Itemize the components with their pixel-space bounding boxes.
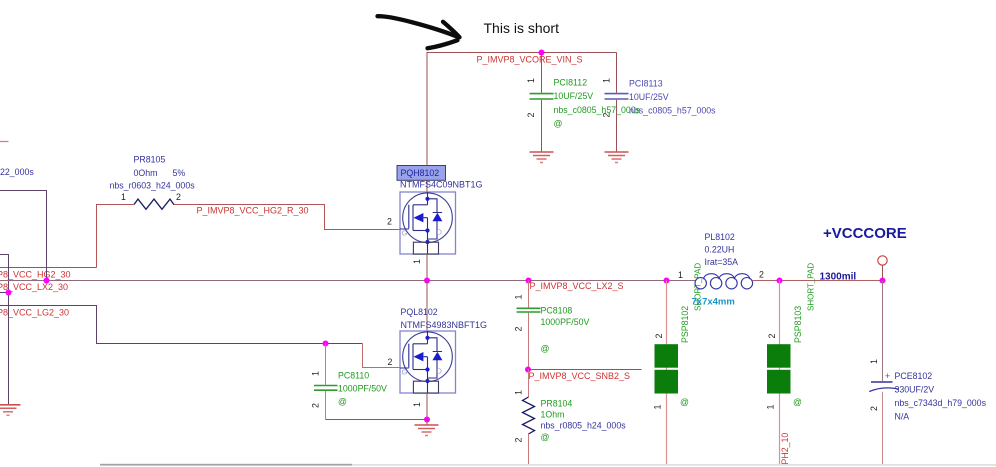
svg-text:1: 1 bbox=[869, 359, 879, 364]
wire LG2 to PQL gate bbox=[0, 306, 363, 344]
node junction stub bbox=[6, 290, 12, 296]
capacitor PC8108 bbox=[514, 281, 590, 370]
svg-text:10UF/25V: 10UF/25V bbox=[554, 91, 594, 101]
svg-text:2: 2 bbox=[311, 403, 321, 408]
terminal circle bbox=[878, 256, 887, 265]
inductor PL8102 bbox=[678, 232, 764, 308]
svg-text:2: 2 bbox=[602, 113, 612, 118]
svg-text:1: 1 bbox=[653, 405, 663, 410]
svg-text:1: 1 bbox=[514, 390, 524, 395]
svg-text:NTMFS4983NBFT1G: NTMFS4983NBFT1G bbox=[401, 320, 488, 330]
svg-text:G: G bbox=[402, 229, 408, 238]
svg-text:7x7x4mm: 7x7x4mm bbox=[692, 297, 735, 308]
svg-text:1: 1 bbox=[121, 192, 126, 202]
svg-text:D: D bbox=[437, 228, 443, 237]
ground (PCI8113) bbox=[605, 152, 629, 163]
svg-text:D: D bbox=[437, 367, 443, 376]
svg-text:1: 1 bbox=[526, 78, 536, 83]
svg-text:2: 2 bbox=[526, 113, 536, 118]
wire terminal to LX2 bbox=[882, 265, 884, 280]
svg-text:NTMFS4C09NBT1G: NTMFS4C09NBT1G bbox=[400, 180, 483, 190]
wire stub LX2 left bbox=[0, 292, 9, 294]
svg-text:PC8110: PC8110 bbox=[338, 371, 369, 381]
svg-text:1000PF/50V: 1000PF/50V bbox=[541, 317, 590, 327]
svg-text:P_IMVP8_VCC_LX2_S: P_IMVP8_VCC_LX2_S bbox=[530, 281, 624, 291]
svg-text:1: 1 bbox=[602, 78, 612, 83]
svg-text:10UF/25V: 10UF/25V bbox=[629, 92, 669, 102]
svg-text:2: 2 bbox=[869, 406, 879, 411]
node junction LG2/PC8110 bbox=[323, 341, 329, 347]
short pad PSP8103 bbox=[766, 263, 816, 464]
ground (PQL8102) bbox=[415, 420, 439, 436]
wire LX2 main bbox=[0, 280, 696, 282]
node junction PCE8102 bbox=[880, 278, 886, 284]
svg-text:22_000s: 22_000s bbox=[0, 167, 34, 177]
node junction LX2 PSP8102 bbox=[664, 278, 670, 284]
svg-text:P_IMVP8_VCC_SNB2_S: P_IMVP8_VCC_SNB2_S bbox=[529, 371, 631, 381]
wire left entry to LX2 bbox=[0, 191, 47, 281]
svg-text:This is short: This is short bbox=[484, 20, 560, 36]
wire drain vertical bbox=[426, 53, 428, 193]
node junction LX2 left bbox=[44, 278, 50, 284]
svg-text:PCE8102: PCE8102 bbox=[895, 371, 933, 381]
svg-text:@: @ bbox=[793, 397, 802, 407]
window edge bottom bbox=[100, 464, 352, 466]
node junction LX2 mosfet bbox=[424, 278, 430, 284]
svg-text:P8_VCC_LG2_30: P8_VCC_LG2_30 bbox=[0, 308, 69, 318]
svg-text:PCI8113: PCI8113 bbox=[629, 79, 663, 89]
svg-text:@: @ bbox=[680, 397, 689, 407]
svg-text:2: 2 bbox=[514, 327, 524, 332]
svg-text:P8_VCC_LX2_30: P8_VCC_LX2_30 bbox=[0, 282, 68, 292]
svg-text:0.22UH: 0.22UH bbox=[705, 245, 735, 255]
svg-text:+VCCCORE: +VCCCORE bbox=[823, 225, 907, 242]
node junction LX2 PC8108 bbox=[526, 278, 532, 284]
svg-text:N/A: N/A bbox=[895, 412, 910, 422]
svg-text:2: 2 bbox=[387, 217, 392, 227]
svg-text:PC8108: PC8108 bbox=[541, 306, 573, 316]
wire PQL source to ground bbox=[426, 393, 428, 420]
transistor PQL8102 bbox=[388, 307, 488, 407]
svg-text:@: @ bbox=[338, 397, 347, 407]
svg-text:P_IMVP8_VCC_HG2_R_30: P_IMVP8_VCC_HG2_R_30 bbox=[197, 206, 309, 216]
svg-text:1: 1 bbox=[514, 295, 524, 300]
svg-text:1Ohm: 1Ohm bbox=[541, 410, 565, 420]
wire left dark vertical to ground bbox=[0, 255, 9, 405]
node junction SNB2 bbox=[525, 367, 531, 373]
svg-text:PQH8102: PQH8102 bbox=[401, 168, 440, 178]
ground (PCI8112) bbox=[530, 152, 554, 163]
resistor PR8104 bbox=[514, 370, 627, 465]
svg-text:G: G bbox=[402, 368, 408, 377]
wire LX2 to PQL drain bbox=[426, 281, 428, 332]
svg-text:2: 2 bbox=[514, 438, 524, 443]
svg-text:PR8104: PR8104 bbox=[541, 399, 573, 409]
node junction PQL ground bbox=[424, 417, 430, 423]
svg-text:SHORT_PAD: SHORT_PAD bbox=[807, 263, 816, 311]
svg-text:nbs_r0603_h24_000s: nbs_r0603_h24_000s bbox=[110, 181, 196, 191]
svg-text:2: 2 bbox=[654, 334, 664, 339]
wire resistor left lead to HG2 bbox=[97, 205, 135, 268]
svg-text:2: 2 bbox=[759, 270, 764, 280]
svg-text:5%: 5% bbox=[173, 168, 186, 178]
capacitor PCI8112 bbox=[526, 53, 641, 152]
wire PC8110 bottom to ground junction bbox=[326, 419, 428, 421]
svg-text:P8_VCC_HG2_30: P8_VCC_HG2_30 bbox=[0, 270, 71, 280]
svg-text:@: @ bbox=[541, 344, 550, 354]
svg-text:PL8102: PL8102 bbox=[705, 232, 735, 242]
wire HG2_R from resistor to PQH gate bbox=[174, 205, 401, 230]
svg-text:1: 1 bbox=[766, 405, 776, 410]
node junction PSP8103 bbox=[777, 278, 783, 284]
svg-text:nbs_r0805_h24_000s: nbs_r0805_h24_000s bbox=[541, 421, 627, 431]
svg-text:PSP8102: PSP8102 bbox=[680, 306, 690, 343]
svg-text:1: 1 bbox=[678, 270, 683, 280]
svg-text:PH2_10: PH2_10 bbox=[780, 433, 790, 465]
svg-text:330UF/2V: 330UF/2V bbox=[895, 385, 935, 395]
node junction VIN at PCI8112 bbox=[539, 50, 545, 56]
wire stub top-left bbox=[0, 141, 9, 143]
wire SNB2 bbox=[528, 369, 642, 371]
svg-text:PQL8102: PQL8102 bbox=[401, 307, 438, 317]
svg-text:nbs_c0805_h57_000s: nbs_c0805_h57_000s bbox=[629, 106, 716, 116]
svg-text:PSP8103: PSP8103 bbox=[793, 306, 803, 343]
svg-text:+: + bbox=[885, 371, 890, 381]
transistor PQH8102 bbox=[387, 166, 483, 265]
svg-text:2: 2 bbox=[176, 192, 181, 202]
wire LX2 right of coil bbox=[753, 280, 883, 282]
svg-text:P_IMVP8_VCORE_VIN_S: P_IMVP8_VCORE_VIN_S bbox=[477, 55, 583, 65]
svg-text:0Ohm: 0Ohm bbox=[134, 168, 158, 178]
svg-text:1: 1 bbox=[311, 371, 321, 376]
resistor PR8105 bbox=[110, 155, 196, 210]
capacitor PC8110 bbox=[311, 344, 388, 420]
svg-text:2: 2 bbox=[767, 334, 777, 339]
svg-text:1300mil: 1300mil bbox=[820, 272, 857, 283]
annotation arrow bbox=[378, 16, 460, 48]
svg-text:2: 2 bbox=[388, 357, 393, 367]
wire VIN_S horizontal bbox=[427, 52, 617, 54]
svg-text:1000PF/50V: 1000PF/50V bbox=[338, 384, 387, 394]
wire HG2 stub bbox=[0, 267, 97, 269]
svg-text:Irat=35A: Irat=35A bbox=[705, 257, 739, 267]
svg-text:1: 1 bbox=[412, 402, 422, 407]
svg-text:@: @ bbox=[554, 119, 563, 129]
capacitor PCE8102 bbox=[869, 281, 987, 465]
svg-text:PR8105: PR8105 bbox=[134, 155, 166, 165]
svg-text:PCI8112: PCI8112 bbox=[554, 78, 588, 88]
capacitor PCI8113 bbox=[602, 53, 717, 152]
svg-text:@: @ bbox=[541, 432, 550, 442]
svg-text:nbs_c0805_h57_000s: nbs_c0805_h57_000s bbox=[554, 105, 641, 115]
short pad PSP8102 bbox=[653, 263, 703, 464]
wire PQH source to LX2 bbox=[426, 254, 428, 281]
svg-text:1: 1 bbox=[412, 259, 422, 264]
svg-text:nbs_c7343d_h79_000s: nbs_c7343d_h79_000s bbox=[895, 398, 987, 408]
ground (left) bbox=[0, 405, 21, 416]
